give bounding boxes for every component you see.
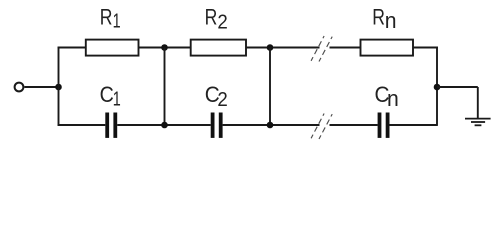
resistor R2 [191,40,246,56]
label C2 [205,82,228,111]
svg-text:1: 1 [113,88,121,110]
ground stem [477,87,479,119]
wire C2 to break [223,124,320,126]
wire break to Cn [330,124,378,126]
svg-text:n: n [387,86,399,111]
wire middle vertical 1 [164,48,166,126]
svg-text:1: 1 [113,11,121,33]
label R2 [205,5,228,34]
wire Cn to right vertical [389,124,437,126]
label Rn [372,5,396,34]
node top junction 1 [161,44,168,51]
wire input to node A [24,86,58,88]
wire bottom rail left to C1 [58,124,106,126]
input terminal circle [15,83,24,92]
label C1 [100,82,121,110]
capacitor C1 [105,113,117,138]
svg-text:R: R [100,5,113,30]
wire right vertical [436,47,438,126]
wire R1 to R2 [139,47,191,49]
wire middle vertical 2 [269,48,271,126]
node top junction 2 [267,44,274,51]
wire R2 to break [246,47,320,49]
break marks bottom rail [311,114,332,140]
svg-text:R: R [205,5,218,30]
svg-text:2: 2 [217,12,227,34]
wire Rn to right corner [413,47,438,49]
wire node B to ground [437,86,478,88]
resistor Rn [361,40,414,56]
node bottom junction 2 [267,122,274,129]
svg-text:2: 2 [217,89,227,111]
ground [465,119,491,126]
capacitor C2 [211,113,223,138]
node A junction dot [55,84,62,91]
capacitor Cn [378,113,390,138]
resistor R1 [86,40,139,56]
wire C1 to C2 [117,124,211,126]
node bottom junction 1 [161,122,168,129]
label Cn [375,82,399,111]
node B junction dot [434,84,441,91]
wire left vertical [58,47,60,126]
wire top rail left to R1 [58,47,86,49]
break marks top rail [311,36,332,62]
svg-text:R: R [372,5,385,30]
wire break to Rn [330,47,361,49]
svg-text:C: C [100,82,114,107]
label R1 [100,5,121,33]
svg-text:n: n [385,8,397,33]
